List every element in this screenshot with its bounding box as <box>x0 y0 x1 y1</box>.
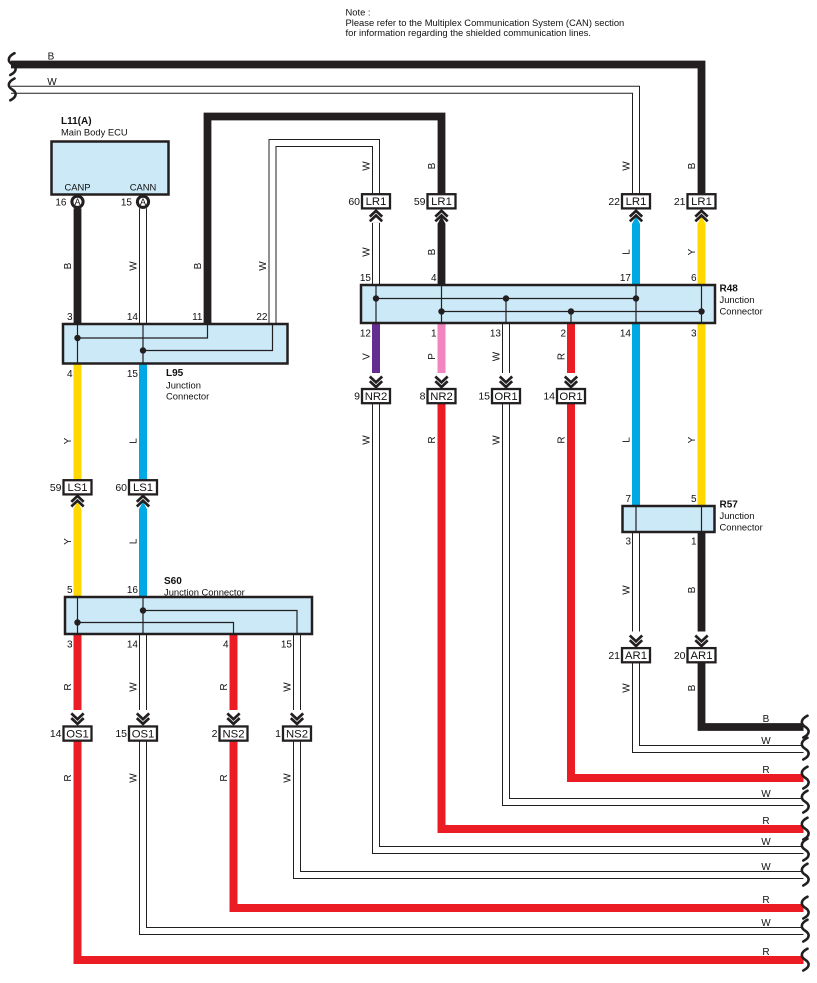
svg-text:59: 59 <box>414 196 426 208</box>
svg-text:B: B <box>63 262 74 269</box>
svg-text:R: R <box>557 353 568 360</box>
svg-text:14: 14 <box>127 312 139 323</box>
svg-text:OS1: OS1 <box>132 728 155 740</box>
svg-text:A: A <box>74 197 80 207</box>
svg-text:6: 6 <box>691 273 697 284</box>
svg-text:NS2: NS2 <box>286 728 308 740</box>
svg-text:W: W <box>622 683 633 693</box>
svg-text:W: W <box>47 77 57 88</box>
svg-text:7: 7 <box>625 494 631 505</box>
svg-text:15: 15 <box>127 369 139 380</box>
svg-text:for information regarding the: for information regarding the shielded c… <box>346 27 591 38</box>
svg-text:5: 5 <box>691 494 697 505</box>
svg-text:15: 15 <box>360 273 372 284</box>
svg-text:3: 3 <box>691 329 697 340</box>
svg-text:LR1: LR1 <box>431 196 452 208</box>
svg-text:B: B <box>48 52 55 63</box>
svg-text:Connector: Connector <box>720 306 763 317</box>
svg-text:2: 2 <box>560 329 566 340</box>
svg-text:R: R <box>762 816 769 827</box>
svg-text:L: L <box>129 538 140 544</box>
svg-text:R48: R48 <box>720 284 739 295</box>
svg-text:13: 13 <box>490 329 502 340</box>
svg-text:R: R <box>427 436 438 443</box>
svg-text:L: L <box>622 437 633 443</box>
svg-text:AR1: AR1 <box>691 650 713 662</box>
svg-text:LS1: LS1 <box>67 482 87 494</box>
svg-text:B: B <box>427 248 438 255</box>
svg-text:LR1: LR1 <box>366 196 387 208</box>
svg-text:Main Body ECU: Main Body ECU <box>61 127 128 138</box>
svg-text:Connector: Connector <box>720 522 763 533</box>
svg-text:OS1: OS1 <box>66 728 89 740</box>
svg-text:R: R <box>762 947 769 958</box>
svg-text:AR1: AR1 <box>625 650 647 662</box>
svg-text:4: 4 <box>223 640 229 651</box>
svg-text:S60: S60 <box>164 576 182 587</box>
svg-text:1: 1 <box>431 329 437 340</box>
svg-text:LS1: LS1 <box>133 482 153 494</box>
svg-text:15: 15 <box>115 728 127 740</box>
svg-text:Junction: Junction <box>720 510 755 521</box>
svg-text:OR1: OR1 <box>494 391 517 403</box>
svg-text:3: 3 <box>67 640 73 651</box>
svg-text:B: B <box>687 586 698 593</box>
svg-text:L95: L95 <box>166 368 184 379</box>
svg-text:R: R <box>219 774 230 781</box>
svg-text:R: R <box>63 774 74 781</box>
svg-text:14: 14 <box>50 728 62 740</box>
svg-text:14: 14 <box>127 640 139 651</box>
svg-text:9: 9 <box>354 391 360 403</box>
svg-text:W: W <box>761 918 771 929</box>
svg-text:21: 21 <box>608 650 620 662</box>
svg-text:CANP: CANP <box>64 182 90 193</box>
svg-text:Junction Connector: Junction Connector <box>164 587 245 598</box>
svg-text:LR1: LR1 <box>691 196 712 208</box>
svg-text:Y: Y <box>687 248 698 255</box>
svg-text:14: 14 <box>620 329 632 340</box>
svg-text:W: W <box>283 682 294 692</box>
svg-text:3: 3 <box>67 312 73 323</box>
svg-text:Y: Y <box>63 538 74 545</box>
svg-text:20: 20 <box>674 650 686 662</box>
svg-text:5: 5 <box>67 585 73 596</box>
svg-text:W: W <box>362 247 373 257</box>
svg-text:21: 21 <box>674 196 686 208</box>
svg-text:8: 8 <box>420 391 426 403</box>
svg-text:22: 22 <box>256 312 268 323</box>
svg-text:W: W <box>761 837 771 848</box>
svg-text:B: B <box>763 714 770 725</box>
svg-text:15: 15 <box>478 391 490 403</box>
svg-text:4: 4 <box>431 273 437 284</box>
svg-text:P: P <box>427 353 438 360</box>
svg-text:1: 1 <box>691 537 697 548</box>
svg-text:NR2: NR2 <box>430 391 453 403</box>
svg-text:3: 3 <box>625 537 631 548</box>
svg-text:60: 60 <box>348 196 360 208</box>
svg-text:W: W <box>362 161 373 171</box>
svg-text:A: A <box>140 197 146 207</box>
svg-text:W: W <box>622 585 633 595</box>
svg-text:OR1: OR1 <box>559 391 582 403</box>
svg-text:W: W <box>129 261 140 271</box>
svg-text:W: W <box>622 161 633 171</box>
svg-text:16: 16 <box>127 585 139 596</box>
svg-text:B: B <box>687 162 698 169</box>
svg-text:W: W <box>362 435 373 445</box>
svg-text:Y: Y <box>63 437 74 444</box>
svg-text:R: R <box>762 765 769 776</box>
svg-text:W: W <box>492 351 503 361</box>
svg-text:B: B <box>427 162 438 169</box>
svg-text:CANN: CANN <box>130 182 157 193</box>
svg-text:R: R <box>219 683 230 690</box>
svg-text:15: 15 <box>281 640 293 651</box>
svg-text:B: B <box>193 262 204 269</box>
svg-text:L: L <box>622 249 633 255</box>
svg-text:60: 60 <box>115 482 127 494</box>
svg-text:1: 1 <box>275 728 281 740</box>
svg-text:2: 2 <box>212 728 218 740</box>
svg-text:R: R <box>762 895 769 906</box>
svg-text:Connector: Connector <box>166 391 209 402</box>
svg-text:14: 14 <box>543 391 555 403</box>
svg-text:L: L <box>129 438 140 444</box>
svg-text:V: V <box>362 353 373 360</box>
svg-text:W: W <box>129 682 140 692</box>
svg-text:W: W <box>492 435 503 445</box>
svg-text:W: W <box>129 773 140 783</box>
svg-text:Y: Y <box>687 436 698 443</box>
svg-text:R: R <box>63 683 74 690</box>
svg-text:B: B <box>687 684 698 691</box>
svg-text:15: 15 <box>121 198 133 209</box>
svg-text:12: 12 <box>360 329 372 340</box>
svg-text:L11(A): L11(A) <box>61 116 92 127</box>
svg-text:59: 59 <box>50 482 62 494</box>
svg-text:22: 22 <box>608 196 620 208</box>
svg-text:NR2: NR2 <box>365 391 388 403</box>
svg-text:W: W <box>258 261 269 271</box>
svg-text:17: 17 <box>620 273 632 284</box>
svg-text:NS2: NS2 <box>223 728 245 740</box>
svg-text:W: W <box>283 773 294 783</box>
svg-text:11: 11 <box>192 312 203 323</box>
svg-text:R57: R57 <box>720 500 739 511</box>
svg-text:4: 4 <box>67 369 73 380</box>
svg-text:Junction: Junction <box>720 294 755 305</box>
svg-text:LR1: LR1 <box>626 196 647 208</box>
svg-text:R: R <box>557 436 568 443</box>
svg-text:W: W <box>761 862 771 873</box>
svg-text:Junction: Junction <box>166 380 201 391</box>
svg-text:W: W <box>761 736 771 747</box>
svg-text:W: W <box>761 789 771 800</box>
svg-text:16: 16 <box>55 198 67 209</box>
